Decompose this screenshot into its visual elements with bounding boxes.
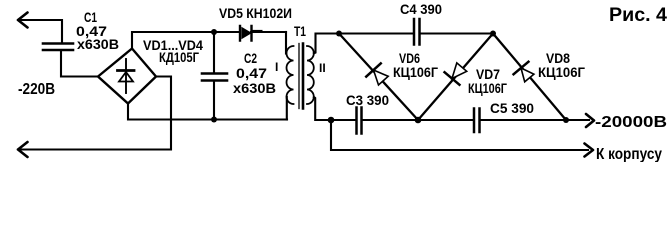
svg-text:C2: C2 bbox=[244, 50, 257, 66]
svg-text:-20000В: -20000В bbox=[595, 114, 667, 131]
svg-text:C5 390: C5 390 bbox=[490, 100, 534, 116]
svg-text:КЦ106Г: КЦ106Г bbox=[468, 80, 507, 96]
svg-text:I: I bbox=[275, 60, 278, 74]
svg-text:К корпусу: К корпусу bbox=[596, 146, 662, 162]
svg-text:х630В: х630В bbox=[233, 80, 276, 96]
svg-text:-220В: -220В bbox=[18, 81, 55, 98]
svg-text:Рис. 4: Рис. 4 bbox=[609, 5, 667, 26]
svg-text:КД105Г: КД105Г bbox=[159, 49, 199, 65]
svg-text:VD5 КН102И: VD5 КН102И bbox=[219, 5, 292, 21]
svg-text:0,47: 0,47 bbox=[236, 65, 267, 81]
svg-text:C3 390: C3 390 bbox=[346, 92, 389, 108]
svg-text:T1: T1 bbox=[294, 23, 306, 39]
svg-text:х630В: х630В bbox=[77, 36, 119, 52]
svg-text:II: II bbox=[319, 61, 326, 75]
svg-text:C4 390: C4 390 bbox=[400, 1, 442, 17]
svg-text:КЦ106Г: КЦ106Г bbox=[538, 64, 585, 80]
svg-text:КЦ106Г: КЦ106Г bbox=[393, 64, 438, 80]
